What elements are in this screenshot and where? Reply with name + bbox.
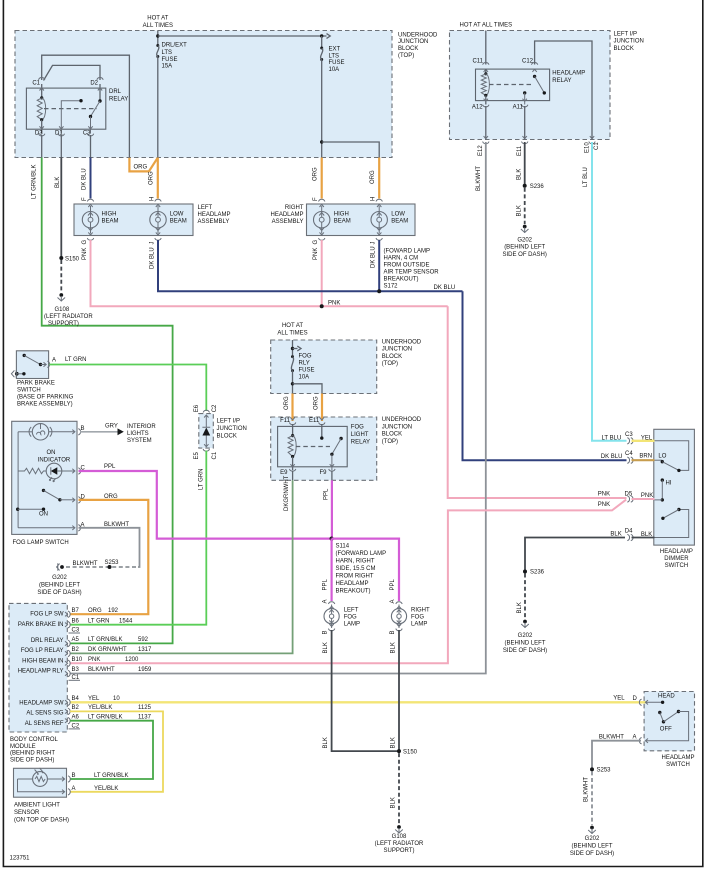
svg-text:AMBIENT LIGHT: AMBIENT LIGHT: [14, 803, 60, 809]
svg-text:(FOWARD LAMP: (FOWARD LAMP: [384, 249, 430, 255]
svg-text:SWITCH: SWITCH: [666, 762, 690, 768]
left I/P junction block (top right): [450, 31, 611, 140]
svg-text:DK GRN/WHT: DK GRN/WHT: [88, 647, 127, 653]
diode symbol: [205, 416, 207, 427]
svg-text:SIDE OF DASH): SIDE OF DASH): [503, 252, 547, 258]
svg-text:YEL: YEL: [641, 435, 653, 441]
svg-text:1137: 1137: [138, 714, 152, 720]
bulb LEFT FOG LAMP: [324, 609, 339, 624]
wire PNK bus down to dimmer D5: [448, 306, 627, 498]
svg-text:RELAY: RELAY: [109, 97, 128, 103]
wire BLKWHT dashed to G202 left: [66, 566, 138, 568]
wire YEL/BLK from BCM B2 to ambient sensor A: [70, 711, 163, 791]
svg-text:B7: B7: [72, 608, 80, 614]
svg-text:FOG: FOG: [299, 354, 312, 360]
svg-text:BREAKOUT): BREAKOUT): [384, 277, 419, 283]
svg-text:S114: S114: [336, 544, 350, 550]
pin E9: [289, 464, 295, 471]
svg-text:(ON TOP OF DASH): (ON TOP OF DASH): [14, 818, 69, 824]
svg-text:E5: E5: [194, 451, 200, 459]
svg-text:BLOCK: BLOCK: [217, 433, 237, 439]
svg-text:PPL: PPL: [323, 578, 329, 590]
svg-text:(TOP): (TOP): [398, 53, 414, 59]
pin B7 BCM: [65, 611, 70, 617]
pin A right fog lamp: [396, 602, 402, 609]
svg-text:G202: G202: [52, 575, 67, 581]
wire GRY to interior lights: [80, 431, 118, 433]
svg-text:HEAD: HEAD: [658, 694, 675, 700]
svg-text:JUNCTION: JUNCTION: [382, 424, 412, 430]
svg-text:INTERIOR: INTERIOR: [127, 424, 156, 430]
svg-text:PARK BRAKE IN: PARK BRAKE IN: [18, 622, 64, 628]
svg-text:HOT AT ALL TIMES: HOT AT ALL TIMES: [460, 23, 513, 29]
svg-text:BLK: BLK: [517, 205, 523, 216]
svg-text:LTS: LTS: [329, 54, 340, 60]
svg-text:JUNCTION: JUNCTION: [614, 39, 644, 45]
svg-text:B2: B2: [72, 647, 80, 653]
wire ORG from DRL fuse to left low beam H: [157, 158, 159, 199]
svg-text:C11: C11: [472, 59, 483, 65]
svg-text:FROM OUTSIDE: FROM OUTSIDE: [384, 263, 430, 269]
svg-text:PNK: PNK: [641, 493, 653, 499]
svg-text:BLOCK: BLOCK: [398, 46, 418, 52]
pin A6 BCM: [65, 718, 70, 724]
splice S236: [523, 184, 527, 188]
wire PNK lower from BCM B10: [70, 500, 626, 664]
svg-text:LIGHT: LIGHT: [351, 432, 369, 438]
svg-text:AL SENS REF: AL SENS REF: [25, 721, 64, 727]
svg-text:B10: B10: [72, 657, 83, 663]
svg-text:BREAKOUT): BREAKOUT): [336, 589, 371, 595]
svg-text:ASSEMBLY: ASSEMBLY: [272, 219, 304, 225]
svg-text:HEADLAMP RLY: HEADLAMP RLY: [18, 669, 64, 675]
svg-text:YEL: YEL: [613, 696, 625, 702]
svg-text:A12: A12: [472, 104, 483, 110]
svg-text:SIDE OF DASH): SIDE OF DASH): [570, 851, 614, 857]
svg-text:BLK/WHT: BLK/WHT: [88, 667, 115, 673]
svg-text:C2: C2: [212, 404, 218, 412]
svg-text:YEL/BLK: YEL/BLK: [94, 786, 118, 792]
pin F9: [329, 464, 335, 471]
fog switch ON contact: [16, 508, 19, 511]
svg-text:SUPPORT): SUPPORT): [48, 321, 79, 327]
ground G202 left (behind left side of dash): [60, 565, 64, 569]
svg-text:DRL/EXT: DRL/EXT: [162, 42, 188, 48]
svg-text:DK BLU: DK BLU: [601, 454, 623, 460]
svg-text:HOT AT: HOT AT: [282, 323, 303, 329]
pin C fog switch: [72, 468, 80, 474]
svg-text:LIGHTS: LIGHTS: [127, 431, 149, 437]
svg-text:H: H: [150, 197, 156, 201]
pin A ambient sensor: [62, 789, 70, 795]
svg-text:FOG LP SW: FOG LP SW: [30, 612, 64, 618]
svg-text:PARK BRAKE: PARK BRAKE: [17, 381, 55, 387]
svg-text:LAMP: LAMP: [411, 622, 427, 628]
park brake switch case ground: [15, 372, 19, 376]
headlamp relay inner box: [476, 69, 550, 101]
wire PPL to left fog lamp: [331, 539, 333, 601]
svg-text:A6: A6: [72, 714, 80, 720]
svg-text:BEAM: BEAM: [334, 218, 351, 224]
svg-text:RELAY: RELAY: [552, 78, 571, 84]
svg-text:592: 592: [138, 637, 149, 643]
svg-text:BLKWHT: BLKWHT: [104, 522, 129, 528]
svg-text:RIGHT: RIGHT: [285, 205, 304, 211]
svg-text:UNDERHOOD: UNDERHOOD: [382, 417, 422, 423]
svg-text:AL SENS SIG: AL SENS SIG: [26, 711, 63, 717]
left headlamp assembly box: [74, 204, 193, 236]
svg-text:UNDERHOOD: UNDERHOOD: [398, 32, 438, 38]
svg-text:PNK: PNK: [598, 502, 610, 508]
pin C1: [39, 78, 45, 80]
pin A headlamp switch: [639, 738, 648, 744]
wire PNK into dimmer: [632, 498, 655, 500]
svg-text:JUNCTION: JUNCTION: [398, 39, 428, 45]
svg-text:LOW: LOW: [391, 211, 405, 217]
fuse DRL/EXT LTS FUSE 15A: [156, 44, 159, 47]
svg-text:FOG LAMP SWITCH: FOG LAMP SWITCH: [13, 540, 69, 546]
svg-text:(BEHIND RIGHT: (BEHIND RIGHT: [10, 751, 55, 757]
wire LT GRN/BLK from BCM A6 to ambient sensor B: [70, 721, 153, 779]
svg-text:(LEFT RADIATOR: (LEFT RADIATOR: [44, 314, 93, 320]
pin E11: [319, 417, 325, 424]
pin H right headlamp: [376, 199, 382, 207]
bulb RIGHT FOG LAMP: [391, 609, 406, 624]
svg-text:HIGH BEAM IN: HIGH BEAM IN: [22, 658, 63, 664]
wire ORG branch to right low beam H: [378, 158, 380, 199]
svg-text:DK BLU: DK BLU: [371, 246, 377, 268]
pin J right headlamp: [376, 232, 382, 240]
fog relay E11 contact: [321, 424, 323, 437]
svg-text:RIGHT: RIGHT: [411, 608, 430, 614]
svg-text:E10: E10: [585, 142, 591, 153]
svg-text:AIR TEMP SENSOR: AIR TEMP SENSOR: [384, 270, 440, 276]
wire PNK right high beam G drop: [321, 240, 323, 306]
wire LT GRN from diode to BCM B6: [70, 451, 206, 625]
wire BLK from left fog lamp to S150: [332, 630, 399, 751]
svg-text:E9: E9: [280, 470, 288, 476]
relay DRL switch arm: [99, 84, 101, 100]
svg-text:F9: F9: [319, 470, 327, 476]
svg-text:SIDE OF DASH): SIDE OF DASH): [10, 757, 54, 763]
pin A11: [522, 99, 528, 107]
pin F left headlamp: [87, 199, 93, 207]
wire feed rail from hot at all times: [157, 31, 159, 45]
svg-text:ORG: ORG: [134, 165, 148, 171]
svg-text:BEAM: BEAM: [170, 218, 187, 224]
pin B10 BCM: [65, 660, 70, 666]
svg-text:A: A: [72, 786, 76, 792]
splice S253 left: [108, 565, 112, 569]
svg-text:S150: S150: [403, 749, 418, 755]
svg-text:SENSOR: SENSOR: [14, 810, 40, 816]
park brake switch lever: [23, 354, 26, 357]
pin D fog switch: [72, 497, 80, 503]
svg-text:BLK: BLK: [391, 797, 397, 808]
svg-text:SWITCH: SWITCH: [665, 563, 689, 569]
svg-text:DK BLU: DK BLU: [434, 285, 456, 291]
fog light relay inner box: [278, 426, 348, 466]
fuse FOG RLY FUSE 10A: [291, 355, 294, 358]
svg-text:HEADLAMP: HEADLAMP: [336, 581, 369, 587]
svg-text:BEAM: BEAM: [391, 218, 408, 224]
headlamp switch HEAD contact: [646, 701, 663, 703]
svg-text:LT GRN: LT GRN: [198, 469, 204, 490]
pin G left headlamp: [87, 232, 93, 240]
svg-text:S150: S150: [65, 256, 80, 262]
svg-text:YEL/BLK: YEL/BLK: [88, 705, 112, 711]
svg-text:SIDE, 15.5 CM: SIDE, 15.5 CM: [336, 566, 376, 572]
pin A12: [483, 99, 489, 107]
wire BLKWHT from E12 to BCM B3: [70, 142, 486, 674]
ground G108 (left radiator support) fog: [397, 825, 401, 829]
svg-text:HARN, 4 CM: HARN, 4 CM: [384, 256, 419, 262]
wire F9 to box bottom: [331, 471, 333, 481]
wire LT GRN/BLK from DRL relay D3 to BCM A5: [42, 158, 173, 644]
svg-text:BLKWHT: BLKWHT: [476, 166, 482, 191]
pin B right fog lamp: [396, 624, 402, 631]
ambient light sensor box: [14, 768, 67, 797]
svg-text:BLK: BLK: [391, 737, 397, 748]
fuse EXT LTS FUSE 10A: [321, 36, 323, 47]
svg-text:BLOCK: BLOCK: [382, 354, 402, 360]
wire ORG branch to relay E11: [321, 394, 323, 422]
svg-text:LT GRN: LT GRN: [88, 618, 109, 624]
relay DRL dashed link: [44, 108, 97, 110]
svg-text:FUSE: FUSE: [299, 368, 315, 374]
svg-text:HEADLAMP: HEADLAMP: [660, 549, 693, 555]
splice S253: [590, 767, 594, 771]
svg-text:E6: E6: [194, 404, 200, 412]
svg-text:G108: G108: [392, 834, 407, 840]
wire BLKWHT dashed to G202: [591, 771, 593, 825]
svg-text:LT GRN/BLK: LT GRN/BLK: [88, 637, 122, 643]
DRL relay inner box: [26, 88, 105, 129]
wire BLKWHT from headlamp switch A to S253: [592, 741, 641, 770]
wire fog switch internal A row: [18, 527, 74, 529]
wire D2 jumper loop: [44, 65, 101, 80]
headlamp relay dashed link: [489, 84, 533, 86]
svg-text:BLK: BLK: [641, 532, 652, 538]
svg-text:G108: G108: [55, 307, 70, 313]
headlamp relay A11 contact: [523, 91, 526, 94]
headlamp switch internal link to A: [646, 712, 689, 741]
relay DRL fixed contact D1: [61, 101, 79, 134]
svg-text:B: B: [323, 630, 329, 634]
wire D1 to box bottom: [60, 135, 62, 158]
svg-text:(TOP): (TOP): [382, 361, 398, 367]
svg-text:PNK: PNK: [598, 491, 610, 497]
svg-text:G202: G202: [585, 836, 600, 842]
svg-text:10A: 10A: [299, 375, 310, 381]
headlamp switch box: [644, 692, 694, 751]
splice S150 (fog): [397, 749, 401, 753]
svg-text:BLKWHT: BLKWHT: [599, 735, 624, 741]
pin D3: [39, 134, 45, 136]
svg-text:SWITCH: SWITCH: [17, 388, 41, 394]
svg-text:OFF: OFF: [660, 727, 672, 733]
fog switch ON indicator LED: [46, 463, 62, 479]
svg-text:D1: D1: [55, 131, 63, 137]
relay DRL coil: [41, 84, 43, 98]
svg-text:B4: B4: [72, 696, 80, 702]
arrow interior lights system: [118, 428, 124, 435]
fog switch lever: [42, 489, 45, 492]
pin B3 BCM: [65, 670, 70, 676]
svg-text:LT GRN/BLK: LT GRN/BLK: [32, 165, 38, 199]
svg-text:EXT: EXT: [329, 47, 341, 53]
svg-text:LT GRN/BLK: LT GRN/BLK: [88, 714, 122, 720]
wire BLK dashed to G202: [524, 188, 526, 224]
svg-text:SIDE OF DASH): SIDE OF DASH): [503, 648, 547, 654]
dimmer lower linkage: [655, 510, 689, 538]
svg-text:LT BLU: LT BLU: [583, 167, 589, 187]
pin D headlamp switch: [639, 699, 648, 705]
svg-text:ALL TIMES: ALL TIMES: [143, 23, 173, 29]
svg-text:PPL: PPL: [324, 488, 330, 500]
svg-text:JUNCTION: JUNCTION: [382, 347, 412, 353]
wire PPL to right fog lamp: [332, 539, 399, 601]
svg-text:LT BLU: LT BLU: [602, 435, 622, 441]
svg-text:FOG: FOG: [351, 425, 364, 431]
svg-text:1200: 1200: [125, 657, 139, 663]
pin E12: [483, 136, 489, 144]
wire LT GRN from park brake to diode: [50, 365, 207, 412]
svg-text:C3: C3: [625, 432, 633, 438]
svg-text:PPL: PPL: [390, 578, 396, 590]
wire BLK from right fog lamp to S150: [398, 630, 400, 751]
svg-text:A: A: [323, 599, 329, 603]
pin B ambient sensor: [62, 776, 70, 782]
pin G right headlamp: [319, 232, 325, 240]
svg-text:BLK: BLK: [55, 177, 61, 188]
svg-text:HARN, RIGHT: HARN, RIGHT: [336, 559, 375, 565]
svg-text:HI: HI: [666, 480, 672, 486]
ground G202 (behind left side of dash) far right: [590, 826, 594, 830]
svg-text:ORG: ORG: [284, 396, 290, 410]
svg-text:SIDE OF DASH): SIDE OF DASH): [37, 590, 81, 596]
svg-text:DRL RELAY: DRL RELAY: [31, 638, 64, 644]
svg-text:(LEFT RADIATOR: (LEFT RADIATOR: [375, 841, 424, 847]
svg-text:E12: E12: [478, 145, 484, 156]
fog lamp switch internal rail: [17, 432, 19, 528]
headlamp dimmer switch box: [654, 429, 695, 545]
svg-text:LT GRN/BLK: LT GRN/BLK: [94, 773, 128, 779]
svg-text:(BEHIND LEFT: (BEHIND LEFT: [39, 583, 80, 589]
svg-text:B: B: [72, 773, 76, 779]
svg-text:HEADLAMP: HEADLAMP: [661, 755, 694, 761]
svg-text:BLKWHT: BLKWHT: [73, 561, 98, 567]
svg-text:B2: B2: [72, 705, 80, 711]
svg-text:G: G: [82, 240, 88, 245]
svg-text:B6: B6: [72, 618, 80, 624]
svg-text:ON: ON: [47, 450, 56, 456]
wire BRN into dimmer: [632, 459, 655, 461]
underhood junction block (fog fuse): [271, 340, 377, 394]
svg-text:E11: E11: [517, 145, 523, 156]
wire ORG fuse to relay F11: [291, 394, 293, 422]
wire BLK dashed to G108: [60, 260, 62, 293]
svg-text:DIMMER: DIMMER: [664, 556, 689, 562]
pin D2: [97, 78, 103, 80]
ground G202 (behind left side of dash) lower: [523, 620, 527, 624]
svg-text:C12: C12: [522, 59, 534, 65]
svg-text:PPL: PPL: [104, 464, 116, 470]
wire C3 to box bottom: [90, 135, 92, 158]
svg-text:G202: G202: [518, 633, 533, 639]
pin B fog switch: [72, 429, 80, 435]
wire C12 loop to E10: [535, 41, 592, 140]
svg-text:B3: B3: [72, 667, 80, 673]
svg-text:1959: 1959: [138, 667, 152, 673]
svg-text:PNK: PNK: [82, 248, 88, 260]
svg-text:PNK: PNK: [313, 248, 319, 260]
svg-text:LT GRN: LT GRN: [65, 357, 86, 363]
svg-text:C1: C1: [212, 451, 218, 459]
svg-text:HEADLAMP: HEADLAMP: [270, 212, 303, 218]
pin A park brake: [47, 361, 49, 367]
svg-text:1125: 1125: [138, 705, 152, 711]
svg-text:HEADLAMP: HEADLAMP: [552, 71, 585, 77]
pin H left headlamp: [155, 199, 161, 207]
svg-text:GRY: GRY: [105, 424, 118, 430]
svg-text:HEADLAMP: HEADLAMP: [198, 212, 231, 218]
svg-text:RLY: RLY: [299, 361, 310, 367]
pin A fog switch: [72, 525, 80, 531]
svg-text:HOT AT: HOT AT: [147, 16, 168, 22]
svg-text:BEAM: BEAM: [102, 218, 119, 224]
svg-text:BLK: BLK: [391, 642, 397, 653]
svg-text:LEFT: LEFT: [198, 205, 213, 211]
svg-text:F: F: [82, 197, 88, 201]
svg-text:G202: G202: [517, 238, 532, 244]
left I/P junction block (diode): [199, 414, 214, 449]
wire BLK from E11 to S236: [524, 142, 526, 186]
splice S172: [377, 289, 381, 293]
headlamp switch OFF lever: [658, 711, 661, 714]
svg-text:C1: C1: [32, 81, 40, 87]
svg-text:E11: E11: [309, 418, 320, 424]
wire PNK left high beam G to pink bus: [91, 240, 448, 306]
wire DK BLU left low beam J to bus: [158, 240, 463, 291]
svg-text:10: 10: [113, 696, 120, 702]
bulb LOW BEAM right: [371, 212, 387, 228]
svg-text:FOG LP RELAY: FOG LP RELAY: [21, 648, 64, 654]
svg-text:BRN: BRN: [639, 454, 652, 460]
wire DK BLU bus down to dimmer C4: [463, 291, 627, 460]
svg-text:(BEHIND LEFT: (BEHIND LEFT: [504, 641, 545, 647]
pin A5 BCM: [65, 640, 70, 646]
wire DK GRN/WHT from fog relay E9 to BCM B2: [70, 480, 293, 653]
fog relay switch arm: [339, 437, 342, 440]
svg-text:A5: A5: [72, 637, 80, 643]
svg-text:123751: 123751: [10, 856, 31, 862]
wire fuse to box bottom: [157, 57, 159, 158]
svg-text:BRAKE ASSEMBLY): BRAKE ASSEMBLY): [17, 402, 73, 408]
svg-text:D: D: [633, 696, 638, 702]
svg-text:PNK: PNK: [88, 657, 100, 663]
wire LT BLU from E10 down to dimmer C3: [592, 142, 627, 441]
pin B left fog lamp: [328, 624, 334, 631]
svg-text:HIGH: HIGH: [102, 211, 117, 217]
svg-text:S236: S236: [530, 184, 545, 190]
svg-text:(BEHIND LEFT: (BEHIND LEFT: [504, 245, 545, 251]
underhood junction block (top left): [15, 31, 392, 158]
svg-text:15A: 15A: [162, 64, 173, 70]
svg-text:(BASE OF PARKING: (BASE OF PARKING: [17, 395, 74, 401]
svg-text:BLKWHT: BLKWHT: [584, 777, 590, 802]
svg-text:RELAY: RELAY: [351, 440, 370, 446]
